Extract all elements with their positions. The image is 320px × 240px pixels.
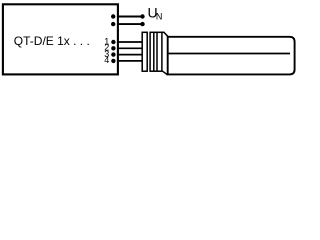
svg-text:4: 4 <box>104 55 109 65</box>
svg-text:QT-D/E 1x . . .: QT-D/E 1x . . . <box>14 34 90 48</box>
svg-text:N: N <box>156 11 163 21</box>
